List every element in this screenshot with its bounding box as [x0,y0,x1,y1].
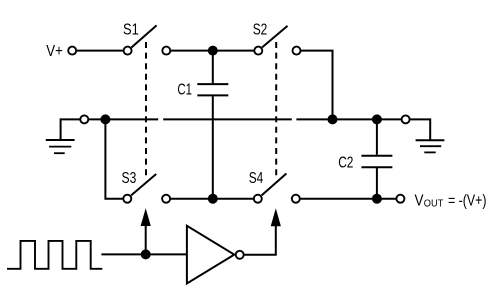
svg-text:S1: S1 [123,22,139,39]
svg-text:C2: C2 [338,154,353,171]
svg-text:OUT: OUT [424,197,444,209]
svg-text:S4: S4 [249,170,264,187]
svg-text:S2: S2 [253,21,268,38]
svg-text:V+: V+ [46,43,63,60]
svg-text:V: V [415,192,425,209]
svg-text:= -(V+): = -(V+) [448,192,487,209]
svg-text:S3: S3 [122,170,137,187]
svg-text:C1: C1 [177,81,192,98]
